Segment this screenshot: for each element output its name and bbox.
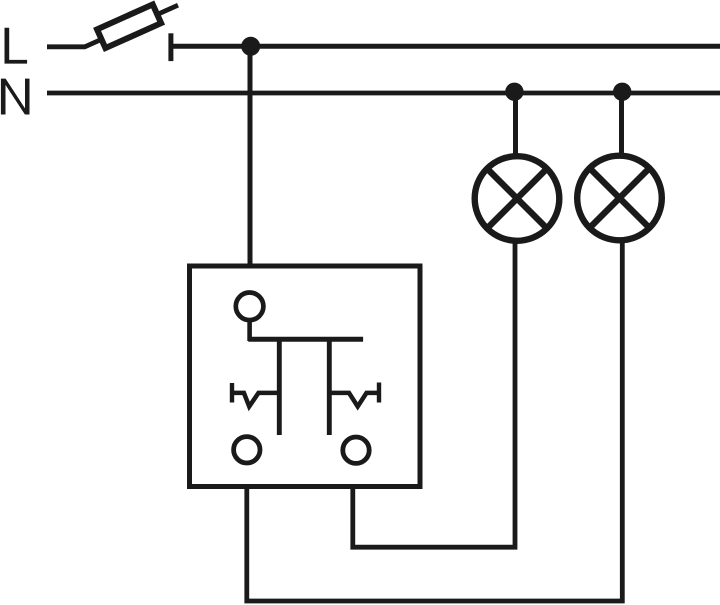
fuse F1 body bbox=[97, 4, 161, 48]
wire L bus bbox=[171, 44, 720, 49]
label L bbox=[5, 28, 28, 64]
contact left tick bbox=[230, 383, 234, 403]
terminal circle bottom-right (pin 2) bbox=[343, 437, 369, 463]
lamp E2 bbox=[577, 156, 662, 241]
wire N bus bbox=[47, 91, 720, 96]
actuator left bbox=[277, 339, 282, 435]
contact right spring path bbox=[329, 393, 379, 407]
terminal circle top (pin L) bbox=[236, 293, 264, 321]
wire box-right-terminal to lamp E1 (mid route) bbox=[353, 242, 515, 547]
lamp E1 bbox=[475, 156, 560, 241]
wire L lead-in bbox=[47, 44, 85, 49]
label N bbox=[1, 79, 30, 115]
wire lamp E1 feed bbox=[513, 92, 518, 158]
switch S contact tick bbox=[168, 33, 173, 61]
wire switch feed (L dot to box) bbox=[248, 46, 253, 266]
switch box S1 bbox=[190, 266, 421, 487]
actuator right bbox=[327, 339, 332, 435]
terminal circle bottom-left (pin 1) bbox=[234, 437, 260, 463]
junction dot on L bbox=[241, 37, 260, 56]
wire stub terminal to rocker bar bbox=[247, 318, 252, 341]
junction dot N right bbox=[613, 83, 631, 101]
wire box-left-terminal to lamp E2 (bottom route) bbox=[247, 242, 623, 601]
junction dot N left bbox=[505, 83, 523, 101]
lamp E1 cross bbox=[487, 169, 547, 229]
contact left spring path bbox=[232, 393, 279, 407]
lamp E2 cross bbox=[590, 168, 650, 228]
contact right tick bbox=[377, 383, 381, 403]
fuse F1 lead (blade axis) bbox=[84, 5, 178, 47]
wire lamp E2 feed bbox=[619, 92, 624, 158]
rocker bar bbox=[248, 337, 363, 342]
